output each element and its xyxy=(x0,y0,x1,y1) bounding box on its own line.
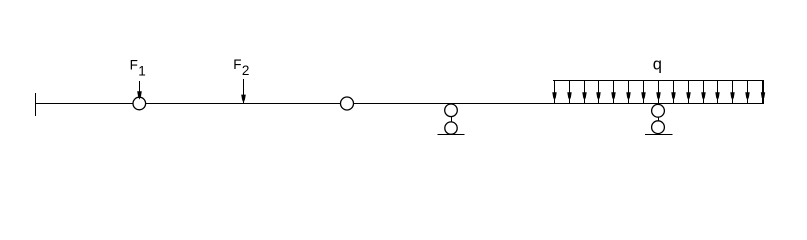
svg-text:2: 2 xyxy=(242,63,250,78)
svg-text:F: F xyxy=(130,57,138,72)
svg-text:1: 1 xyxy=(138,64,146,79)
svg-text:q: q xyxy=(653,56,662,74)
svg-text:F: F xyxy=(233,57,241,72)
